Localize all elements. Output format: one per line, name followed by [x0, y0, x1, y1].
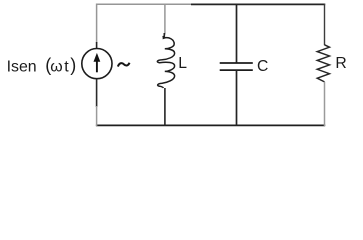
- wire top left (gray): [97, 4, 192, 43]
- svg-text:R: R: [335, 55, 346, 72]
- wire source top lead: [96, 42, 98, 49]
- resistor R: [317, 45, 329, 82]
- svg-text:ω: ω: [50, 58, 62, 75]
- current source I1: [82, 49, 112, 79]
- wire source bottom lead (gray): [96, 106, 98, 126]
- wire inductor bottom lead: [164, 88, 166, 126]
- wire resistor bottom lead (gray): [324, 82, 326, 126]
- wire resistor top lead: [324, 4, 326, 46]
- wire inductor top tick (dark): [163, 33, 165, 38]
- wire top right (dark): [191, 3, 325, 5]
- wire inductor top lead (gray): [164, 4, 166, 35]
- ac tilde: [118, 63, 130, 67]
- svg-text:Isen: Isen: [7, 58, 37, 75]
- svg-text:L: L: [178, 55, 187, 72]
- svg-text:C: C: [257, 58, 268, 75]
- capacitor C: [220, 63, 253, 70]
- wire bottom: [96, 124, 325, 126]
- inductor L: [157, 36, 174, 88]
- svg-text:): ): [70, 55, 76, 75]
- wire capacitor top lead: [236, 4, 238, 63]
- wire source bottom lead (dark): [96, 79, 98, 107]
- svg-text:t: t: [64, 58, 69, 75]
- wire capacitor bottom lead: [236, 70, 238, 126]
- label Isen (ω t): [7, 55, 77, 76]
